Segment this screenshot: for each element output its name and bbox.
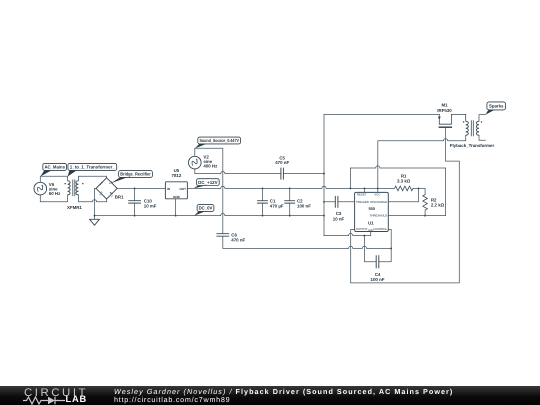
wire V2 bottom through C5 (hop over V2 top branch) (195, 169, 324, 174)
wire capacitor C2 branch (289, 188, 291, 215)
svg-text:DISCHARGE: DISCHARGE (370, 200, 387, 204)
wire C4 left branch from GND wire (364, 236, 376, 262)
wire DC_0V rail (hop over V2 branch) (95, 214, 325, 216)
node flag Sound_Source_0.447V (195, 137, 241, 148)
svg-text:60 Hz: 60 Hz (49, 191, 61, 196)
node C6 wire end on CONTROL branch (390, 247, 392, 249)
wire flyback secondary bottom stub (479, 135, 485, 140)
node +12V rail junctions (134, 187, 136, 189)
svg-text:7812: 7812 (172, 173, 182, 178)
svg-text:TRIGGER: TRIGGER (356, 200, 370, 204)
wire DISCHARGE to R1/R2 node (388, 188, 418, 201)
CircuitLab logo text CIRCUIT (24, 386, 88, 399)
svg-text:3.3 kΩ: 3.3 kΩ (397, 179, 411, 184)
wire bridge left corner to ground node (95, 188, 97, 219)
footer url text (114, 395, 230, 404)
bridge rectifier BR1 (96, 178, 117, 199)
AC source V6 (34, 182, 47, 195)
capacitor C1 plates (257, 201, 268, 203)
node C5 wire end on bus (323, 173, 325, 175)
svg-text:400 Hz: 400 Hz (203, 163, 218, 168)
capacitor C2 plates (284, 201, 295, 203)
svg-text:OUTPUT: OUTPUT (356, 227, 368, 231)
wire U5 GND stub (175, 199, 177, 216)
wire capacitor C1 branch (262, 188, 264, 215)
wire XFMR1 secondary bottom to bridge bottom (hop over ground wire) (78, 195, 106, 202)
wire C6 bottom to 555 CONTROL (hops over OUTPUT stub and C4 branch) (223, 236, 391, 248)
node ground/0V rail junctions (94, 215, 96, 217)
svg-text:CONTROL: CONTROL (373, 227, 387, 231)
wire V6 bottom to XFMR1 primary bottom (40, 195, 67, 202)
wire VCC riser up to flyback primary bottom (hop over M1 source) (378, 135, 466, 192)
svg-text:XFMR1: XFMR1 (67, 205, 82, 210)
wire V6 top to XFMR1 primary top (40, 176, 67, 182)
svg-text:10 mF: 10 mF (144, 203, 157, 208)
svg-text:THRESHOLD: THRESHOLD (370, 213, 388, 217)
wire RESET stub (364, 188, 366, 192)
svg-text:470 µF: 470 µF (270, 203, 284, 208)
node flag Bridge_Rectifier (111, 171, 152, 184)
wire R1 right to R2 top, R2 bottom stub (413, 188, 425, 215)
node flag DC_0V (194, 205, 214, 216)
svg-text:AC_Mains: AC_Mains (44, 165, 65, 170)
svg-text:10 nF: 10 nF (333, 216, 345, 221)
regulator U5 box (165, 182, 187, 199)
svg-text:Sound_Source_0.447V: Sound_Source_0.447V (199, 138, 239, 143)
svg-text:DC_+12V: DC_+12V (198, 180, 218, 185)
wire capacitor C10 branch (134, 188, 136, 215)
svg-text:555: 555 (368, 206, 375, 211)
svg-text:Flyback_Transformer: Flyback_Transformer (450, 143, 495, 148)
svg-text:IRF530: IRF530 (437, 108, 452, 113)
svg-text:OUT: OUT (179, 187, 186, 191)
capacitor C5 plates (281, 168, 284, 180)
wire TRIGGER through C3 (324, 201, 355, 203)
wire bridge right corner to U5 IN (117, 187, 165, 189)
svg-text:Bridge_Rectifier: Bridge_Rectifier (120, 172, 151, 177)
transformer XFMR1 (64, 180, 83, 197)
node flag Sparks (485, 102, 505, 115)
svg-text:RESET: RESET (357, 193, 367, 197)
svg-text:470 nF: 470 nF (275, 160, 289, 165)
svg-text:2.2 kΩ: 2.2 kΩ (431, 202, 445, 207)
svg-text:470 nF: 470 nF (231, 238, 245, 243)
wire flyback secondary top to Sparks (479, 115, 485, 122)
transistor Q1 MOSFET M1 (438, 114, 466, 127)
svg-text:DC_0V: DC_0V (199, 206, 213, 211)
node R2 bottom on threshold wire (424, 215, 426, 217)
wire C4 right branch up to CONTROL (379, 229, 391, 261)
svg-text:GND: GND (173, 195, 181, 199)
svg-text:VCC: VCC (374, 193, 381, 197)
svg-text:100 nF: 100 nF (371, 277, 385, 282)
transformer Flyback_Transformer (463, 120, 482, 136)
wire 555 OUTPUT loop to M1 source (351, 128, 460, 283)
resistor R1 (395, 186, 413, 191)
node flag AC_Mains (40, 163, 66, 176)
svg-text:Sparks: Sparks (489, 103, 504, 108)
capacitor C4 plates (376, 255, 379, 268)
voltage source V2 (189, 156, 202, 169)
resistor R2 (423, 195, 428, 210)
wire M1 gate line from vertical bus (324, 114, 439, 235)
svg-text:M1: M1 (441, 102, 448, 107)
wire XFMR1 secondary top to bridge top (78, 176, 106, 180)
capacitor C10 plates (128, 201, 141, 203)
footer bar (0, 386, 540, 405)
node C3 wire end on bus (323, 201, 325, 203)
wire V2 top branch down to C6 (195, 148, 223, 233)
wire DC_+12V rail (hops over V2 branch and gate line) (187, 186, 394, 188)
svg-text:BR1: BR1 (115, 195, 124, 200)
capacitor C6 plates (216, 234, 229, 237)
CircuitLab logo text LAB (66, 394, 88, 404)
op-amp U1 555 timer box (355, 192, 389, 231)
svg-text:U1: U1 (368, 221, 374, 226)
wire 0V bus to 555 GND pin (324, 232, 371, 236)
footer title text (114, 387, 453, 396)
capacitor C3 plates (335, 196, 338, 208)
svg-text:100 nF: 100 nF (297, 203, 311, 208)
wire THRESHOLD loop to +12V rail (hop over VCC riser) (350, 166, 445, 216)
svg-text:1_to_1_Transformer_: 1_to_1_Transformer_ (70, 165, 115, 170)
logo resistor-diode graphic (22, 394, 92, 405)
node C4 branch on GND wire (363, 235, 365, 237)
node flag 1_to_1_Transformer_ (68, 163, 117, 176)
ground (90, 219, 100, 225)
node flag DC_+12V (194, 179, 220, 189)
